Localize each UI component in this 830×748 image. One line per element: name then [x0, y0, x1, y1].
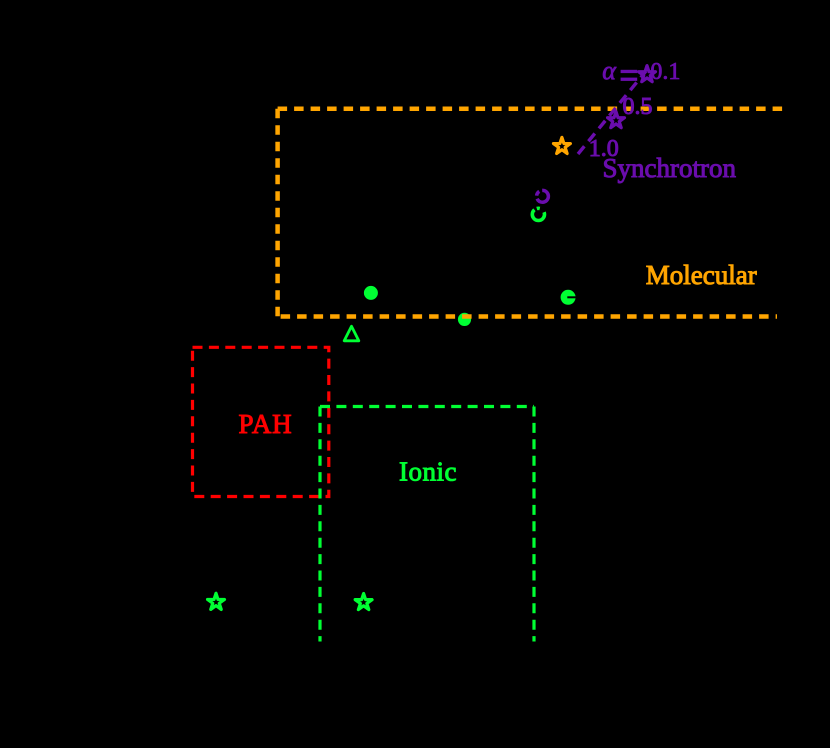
svg-text:Synchrotron: Synchrotron [603, 153, 737, 183]
Ionic region dashed box (green, bottom clipped) [320, 407, 534, 642]
svg-text:0.5: 0.5 [623, 94, 653, 120]
open star marker alpha=1.0 (orange) [553, 137, 570, 153]
PAH region dashed box (red) [193, 347, 329, 496]
green filled circle marker 1 [364, 286, 378, 300]
open triangle marker (green) [344, 326, 359, 341]
open star marker bottom-middle (green) [355, 594, 372, 610]
open star marker bottom-left (green) [208, 593, 225, 609]
green filled circle marker 3 (notched) [561, 290, 576, 305]
svg-text:PAH: PAH [239, 409, 293, 439]
svg-text:Ionic: Ionic [399, 457, 457, 487]
synchrotron power-law dashed track line [578, 71, 646, 154]
Molecular region dashed box (orange, right side clipped) [278, 109, 783, 317]
open star marker alpha=0.5 (purple) [608, 112, 625, 128]
dashed open circle marker (purple) [537, 190, 549, 202]
svg-text:0.1: 0.1 [650, 59, 680, 85]
svg-text:α: α [602, 56, 617, 85]
green filled circle marker 2 [458, 313, 471, 326]
dashed open circle marker (green) [532, 208, 544, 220]
open star marker alpha=0.1 (purple) [639, 66, 656, 82]
svg-text:Molecular: Molecular [646, 260, 757, 290]
